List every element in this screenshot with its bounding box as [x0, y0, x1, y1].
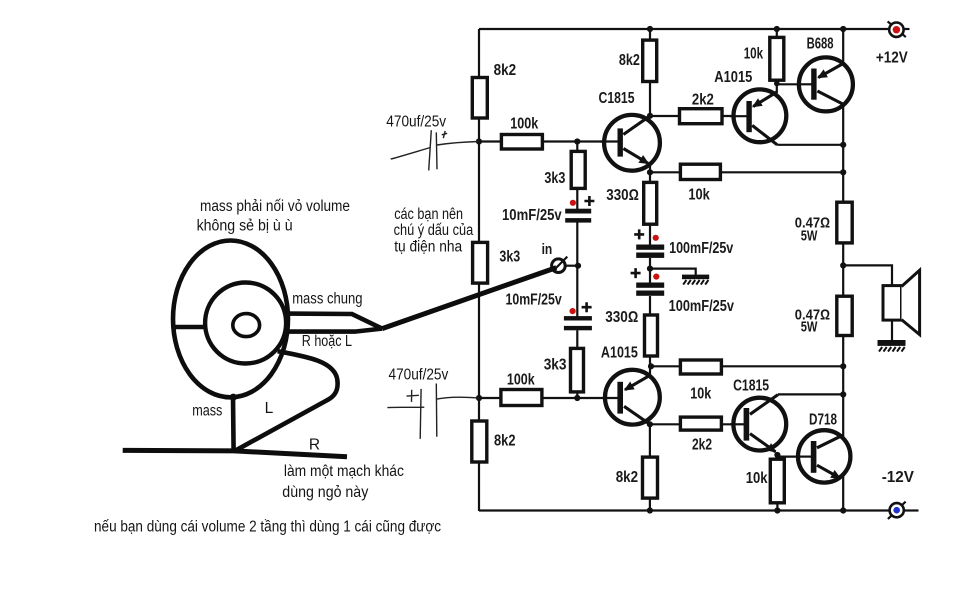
- svg-text:không sẻ bị ù ù: không sẻ bị ù ù: [197, 218, 293, 235]
- resistor 10k bottom vertical: [746, 459, 785, 503]
- svg-text:100mF/25v: 100mF/25v: [669, 240, 734, 257]
- wire mass vertical: [230, 394, 237, 451]
- wire pot to in: [382, 268, 556, 329]
- svg-text:D718: D718: [809, 412, 837, 429]
- svg-text:3k3: 3k3: [544, 170, 565, 187]
- svg-text:100mF/25v: 100mF/25v: [669, 298, 735, 315]
- svg-text:8k2: 8k2: [494, 62, 516, 79]
- wire D718 base row: [777, 456, 810, 458]
- transistor Q3 B688: [799, 36, 853, 112]
- wire left rail: [478, 29, 480, 511]
- wire bottom base row: [479, 397, 617, 399]
- wiper arm: [286, 314, 382, 332]
- svg-text:2k2: 2k2: [692, 436, 712, 453]
- node output upper: [840, 142, 846, 148]
- svg-text:mass phải nối vỏ volume: mass phải nối vỏ volume: [200, 198, 350, 215]
- svg-text:5W: 5W: [801, 320, 818, 336]
- resistor 330 top: [606, 182, 656, 224]
- svg-text:các bạn nên: các bạn nên: [394, 206, 463, 223]
- wire top base row: [479, 140, 617, 142]
- wire mass horizontal: [123, 448, 237, 454]
- svg-text:10mF/25v: 10mF/25v: [506, 292, 562, 309]
- svg-text:A1015: A1015: [601, 344, 638, 361]
- capacitor 470uf/25v top: [391, 130, 479, 170]
- wire 10k bottom row: [651, 365, 843, 367]
- wire -12V stub: [904, 509, 919, 511]
- svg-text:10k: 10k: [746, 470, 768, 487]
- svg-text:10mF/25v: 10mF/25v: [502, 207, 562, 224]
- resistor 10k top right: [744, 37, 784, 80]
- resistor 3k3 bottom: [544, 348, 584, 392]
- node in junction: [575, 263, 581, 269]
- wire 8k2 column bottom: [649, 424, 651, 510]
- transistor Q2 A1015 top: [714, 69, 786, 145]
- resistor 3k3 top: [544, 151, 585, 188]
- wire input column segment 3: [576, 330, 578, 398]
- capacitor 100mF/25v bottom: [631, 268, 735, 315]
- wire +12V stub: [904, 28, 910, 30]
- node C1815 bottom collector: [840, 391, 846, 397]
- svg-text:R: R: [309, 437, 320, 454]
- resistor 2k2 bottom: [680, 417, 721, 453]
- resistor 330 bottom: [605, 309, 657, 356]
- node in: [542, 241, 568, 272]
- wire 10k top row: [650, 171, 843, 173]
- terminal +12V: [876, 21, 908, 66]
- node output 10k bottom: [840, 363, 846, 369]
- capacitor 10mF/25v top: [502, 196, 594, 224]
- resistor 10k bottom horizontal: [680, 360, 721, 403]
- ground mid: [682, 275, 709, 285]
- wire 2k2 bottom row: [650, 423, 744, 425]
- svg-text:5W: 5W: [801, 229, 818, 245]
- wire A1015 top collector row: [777, 144, 843, 146]
- svg-text:470uf/25v: 470uf/25v: [389, 367, 449, 384]
- node bottom rail D718: [840, 507, 846, 513]
- node base top: [574, 138, 580, 144]
- wire input column segment 2: [576, 223, 578, 317]
- terminal -12V: [882, 469, 915, 519]
- wire R branch: [235, 451, 348, 457]
- resistor 2k2 top: [680, 92, 723, 124]
- resistor 100k bottom: [501, 372, 542, 406]
- node top rail / B688: [840, 26, 846, 32]
- capacitor 470uf/25v bottom: [387, 384, 479, 439]
- svg-text:330Ω: 330Ω: [605, 309, 638, 326]
- ground speaker: [878, 340, 906, 352]
- resistor 0.47 bottom: [795, 296, 852, 336]
- wire 8k2 column top: [649, 29, 651, 116]
- svg-text:chú ý dấu của: chú ý dấu của: [394, 222, 474, 239]
- node left rail base bottom: [476, 395, 482, 401]
- wire emitter column segment 3: [649, 296, 651, 375]
- transistor Q4 A1015 bottom: [601, 344, 660, 424]
- svg-text:3k3: 3k3: [544, 357, 567, 374]
- node C1815 emitter: [647, 169, 653, 175]
- resistor 8k2 mid bottom: [616, 457, 658, 498]
- svg-text:mass: mass: [192, 402, 222, 419]
- volume pot body: [173, 241, 288, 398]
- node output speaker: [840, 262, 846, 268]
- svg-text:B688: B688: [807, 36, 834, 53]
- svg-text:10k: 10k: [744, 46, 764, 63]
- node left rail base top: [476, 138, 482, 144]
- wire ground branch: [650, 269, 696, 276]
- resistor 10k top horizontal: [680, 164, 720, 203]
- svg-text:8k2: 8k2: [494, 432, 516, 449]
- svg-text:2k2: 2k2: [692, 92, 714, 109]
- svg-text:mass chung: mass chung: [292, 291, 362, 308]
- wire C1815 bottom collector row: [778, 393, 843, 395]
- resistor 8k2 left top: [472, 62, 516, 118]
- svg-text:tụ điện nha: tụ điện nha: [394, 238, 462, 255]
- node A1015 emitter bottom: [648, 363, 654, 369]
- svg-text:-12V: -12V: [882, 469, 915, 486]
- wire top rail: [479, 28, 890, 30]
- svg-text:470uf/25v: 470uf/25v: [386, 114, 446, 131]
- resistor 100k top: [501, 115, 542, 149]
- node top rail / 8k2: [647, 26, 653, 32]
- svg-text:R hoặc L: R hoặc L: [302, 333, 352, 350]
- node A1015 bottom collector: [647, 421, 653, 427]
- wire right rail: [842, 29, 844, 511]
- resistor 8k2 left bottom: [472, 421, 516, 462]
- svg-text:330Ω: 330Ω: [606, 187, 639, 204]
- svg-text:dùng ngỏ này: dùng ngỏ này: [282, 484, 368, 501]
- wire speaker branch: [843, 265, 892, 286]
- svg-text:làm một mạch khác: làm một mạch khác: [284, 463, 404, 480]
- node top rail / 10k: [774, 26, 780, 32]
- wire B688 base row: [777, 83, 812, 85]
- svg-text:100k: 100k: [507, 372, 535, 389]
- svg-text:C1815: C1815: [599, 90, 635, 107]
- svg-text:C1815: C1815: [733, 377, 769, 394]
- wire input column segment 1: [576, 142, 578, 210]
- resistor 8k2 mid top: [619, 40, 657, 81]
- node bottom rail 10k: [774, 507, 780, 513]
- svg-text:8k2: 8k2: [619, 52, 640, 69]
- wire 10k column top: [776, 29, 778, 93]
- svg-text:10k: 10k: [688, 187, 710, 204]
- svg-text:10k: 10k: [690, 386, 711, 403]
- node A1015 10k junction: [774, 81, 780, 87]
- wire emitter column segment 2: [649, 258, 651, 283]
- capacitor 100mF/25v top: [634, 229, 733, 258]
- wire 10k column bottom: [776, 453, 778, 511]
- svg-text:+12V: +12V: [876, 49, 908, 66]
- transistor Q1 C1815 top: [599, 90, 660, 171]
- node C1815 collector: [647, 113, 653, 119]
- speaker: [883, 270, 920, 334]
- transistor Q5 C1815 bottom: [730, 377, 786, 451]
- wire in node link: [565, 265, 579, 267]
- svg-text:8k2: 8k2: [616, 469, 638, 486]
- transistor Q6 D718: [798, 412, 850, 483]
- node capacitors mid: [647, 266, 653, 272]
- svg-text:100k: 100k: [510, 115, 538, 132]
- wire L loop: [236, 351, 338, 450]
- svg-text:A1015: A1015: [714, 69, 752, 86]
- wire bottom rail: [479, 509, 890, 511]
- svg-text:nếu bạn dùng cái volume 2 tầng: nếu bạn dùng cái volume 2 tầng thì dùng …: [94, 519, 441, 536]
- WIRES-GROUP: [479, 29, 919, 511]
- node D718 base: [774, 452, 780, 458]
- resistor 0.47 top: [795, 202, 852, 244]
- svg-text:3k3: 3k3: [499, 249, 520, 266]
- wire speaker to ground: [891, 320, 893, 341]
- svg-text:L: L: [265, 400, 274, 417]
- svg-text:in: in: [542, 241, 553, 258]
- node bottom rail 8k2: [647, 507, 653, 513]
- node base bottom: [574, 395, 580, 401]
- node output 10k: [840, 169, 846, 175]
- capacitor 10mF/25v bottom: [506, 292, 592, 331]
- wire emitter column segment 1: [649, 165, 651, 246]
- wire 2k2 top row: [650, 115, 746, 117]
- resistor 3k3 rail: [473, 242, 521, 283]
